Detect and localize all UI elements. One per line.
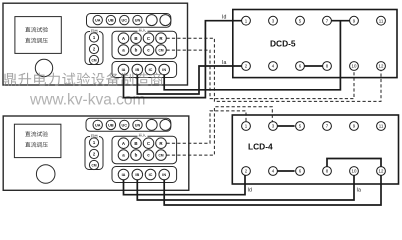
svg-text:CM: CM	[92, 164, 97, 168]
svg-text:B: B	[134, 141, 137, 146]
svg-text:11: 11	[379, 124, 384, 129]
svg-text:IC: IC	[149, 173, 153, 177]
svg-text:b: b	[135, 48, 138, 53]
svg-text:10: 10	[352, 64, 357, 69]
svg-text:IB: IB	[135, 68, 139, 72]
svg-text:IB: IB	[135, 173, 139, 177]
svg-text:Id: Id	[222, 14, 226, 20]
svg-text:IN: IN	[162, 68, 166, 72]
svg-text:CM: CM	[159, 154, 164, 158]
svg-text:UC: UC	[122, 19, 128, 23]
svg-text:12: 12	[379, 169, 384, 174]
svg-text:DCD-5: DCD-5	[270, 39, 296, 49]
svg-text:UB: UB	[108, 123, 114, 127]
svg-text:CM: CM	[92, 59, 97, 63]
svg-text:IA: IA	[122, 68, 126, 72]
svg-text:LCD-4: LCD-4	[248, 142, 273, 152]
svg-text:UA: UA	[95, 19, 101, 23]
svg-text:Ia: Ia	[222, 60, 226, 66]
svg-text:UB: UB	[108, 19, 114, 23]
svg-text:12: 12	[379, 64, 384, 69]
svg-text:10: 10	[352, 169, 357, 174]
svg-text:Id: Id	[248, 188, 252, 194]
svg-text:UC: UC	[122, 123, 128, 127]
svg-text:www.kv-kva.com: www.kv-kva.com	[29, 92, 145, 109]
svg-text:IN: IN	[162, 173, 166, 177]
svg-text:IA: IA	[122, 173, 126, 177]
svg-text:UA: UA	[95, 123, 101, 127]
svg-text:CM: CM	[159, 49, 164, 53]
svg-text:UN: UN	[135, 123, 141, 127]
svg-text:UN: UN	[135, 19, 141, 23]
svg-text:B: B	[134, 36, 137, 41]
svg-text:IC: IC	[149, 68, 153, 72]
svg-text:Ia: Ia	[357, 188, 361, 194]
svg-text:11: 11	[379, 18, 384, 23]
svg-text:b: b	[135, 153, 138, 158]
